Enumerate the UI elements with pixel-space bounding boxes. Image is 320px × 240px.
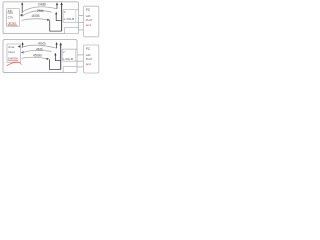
svg-text:PC: PC bbox=[86, 47, 91, 51]
svg-text:examine: examine bbox=[8, 56, 18, 60]
svg-text:with: with bbox=[86, 14, 91, 18]
svg-text:45GB: 45GB bbox=[33, 53, 42, 57]
svg-text:PLAY: PLAY bbox=[86, 18, 93, 22]
svg-text:with: with bbox=[86, 53, 91, 57]
svg-text:Uma: Uma bbox=[8, 45, 15, 49]
svg-text:4Mb: 4Mb bbox=[36, 47, 43, 51]
svg-text:15GB: 15GB bbox=[31, 14, 40, 18]
svg-text:4Gd): 4Gd) bbox=[38, 41, 46, 45]
svg-text:Inopl: Inopl bbox=[8, 50, 15, 54]
svg-text:Cm: Cm bbox=[8, 15, 13, 19]
svg-text:ε°: ε° bbox=[64, 10, 66, 14]
svg-text:PC: PC bbox=[86, 8, 91, 12]
svg-text:-L RG-B: -L RG-B bbox=[63, 17, 74, 21]
svg-text:and: and bbox=[86, 23, 91, 27]
svg-text:PLAY: PLAY bbox=[86, 57, 93, 61]
svg-text:ε°: ε° bbox=[63, 50, 65, 54]
svg-text:and: and bbox=[86, 62, 91, 66]
svg-text:-L RG-B: -L RG-B bbox=[62, 57, 73, 61]
svg-text:2Mb: 2Mb bbox=[37, 9, 44, 13]
svg-text:24dB: 24dB bbox=[38, 3, 47, 7]
